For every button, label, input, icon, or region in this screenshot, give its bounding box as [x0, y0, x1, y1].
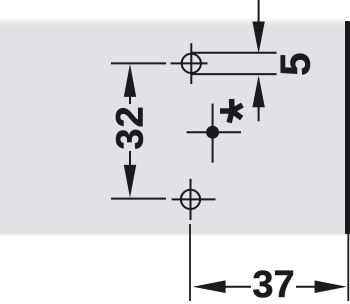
svg-text:5: 5 — [272, 53, 319, 76]
svg-text:37: 37 — [252, 264, 294, 304]
svg-text:32: 32 — [109, 105, 151, 149]
